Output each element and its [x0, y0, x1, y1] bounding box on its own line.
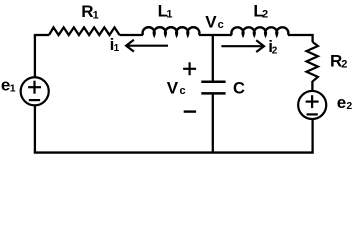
svg-text:2: 2 [262, 8, 268, 20]
wire bottom [34, 151, 314, 153]
label L2 [253, 1, 268, 20]
svg-text:2: 2 [272, 45, 278, 56]
svg-text:C: C [233, 79, 245, 97]
inductor L2 [231, 27, 288, 35]
resistor R2 [307, 42, 318, 82]
wire L2 to top-right corner [288, 35, 313, 42]
label R2 [330, 51, 347, 70]
capacitor plus sign [183, 62, 196, 75]
wire left branch top [34, 35, 36, 78]
svg-text:c: c [218, 19, 224, 31]
label e2 [337, 93, 352, 112]
source e1 [21, 77, 49, 105]
label i1 [110, 35, 120, 54]
wire capacitor branch bottom [212, 95, 214, 153]
label e1 [1, 75, 16, 94]
svg-text:2: 2 [346, 100, 352, 112]
resistor R1 [49, 27, 120, 35]
node Vc label [205, 12, 223, 31]
current arrow i1 [126, 40, 168, 52]
svg-text:2: 2 [341, 58, 347, 70]
label R1 [81, 2, 98, 21]
wire e1 to bottom-left corner [34, 105, 36, 153]
svg-text:1: 1 [10, 82, 16, 94]
capacitor C [201, 82, 225, 94]
svg-text:1: 1 [166, 9, 172, 21]
current arrow i2 [221, 40, 264, 52]
wire e2 to bottom-right corner [311, 119, 313, 153]
label Vc voltage [167, 78, 186, 97]
inductor L1 [143, 27, 200, 35]
svg-text:V: V [205, 12, 217, 31]
svg-text:e: e [337, 93, 346, 112]
wire R2 to e2 [311, 81, 313, 91]
wire L1 to node Vc [199, 34, 232, 36]
label L1 [158, 1, 173, 20]
svg-text:V: V [167, 78, 179, 97]
wire capacitor branch top [212, 35, 214, 81]
wire R1 to L1 [120, 34, 144, 36]
svg-text:1: 1 [114, 43, 120, 54]
svg-text:c: c [180, 85, 186, 97]
label C [233, 79, 245, 97]
source e2 [298, 91, 326, 119]
svg-text:1: 1 [93, 9, 99, 21]
wire top-left horizontal [34, 34, 49, 36]
capacitor minus sign [184, 110, 196, 112]
label i2 [268, 37, 277, 56]
